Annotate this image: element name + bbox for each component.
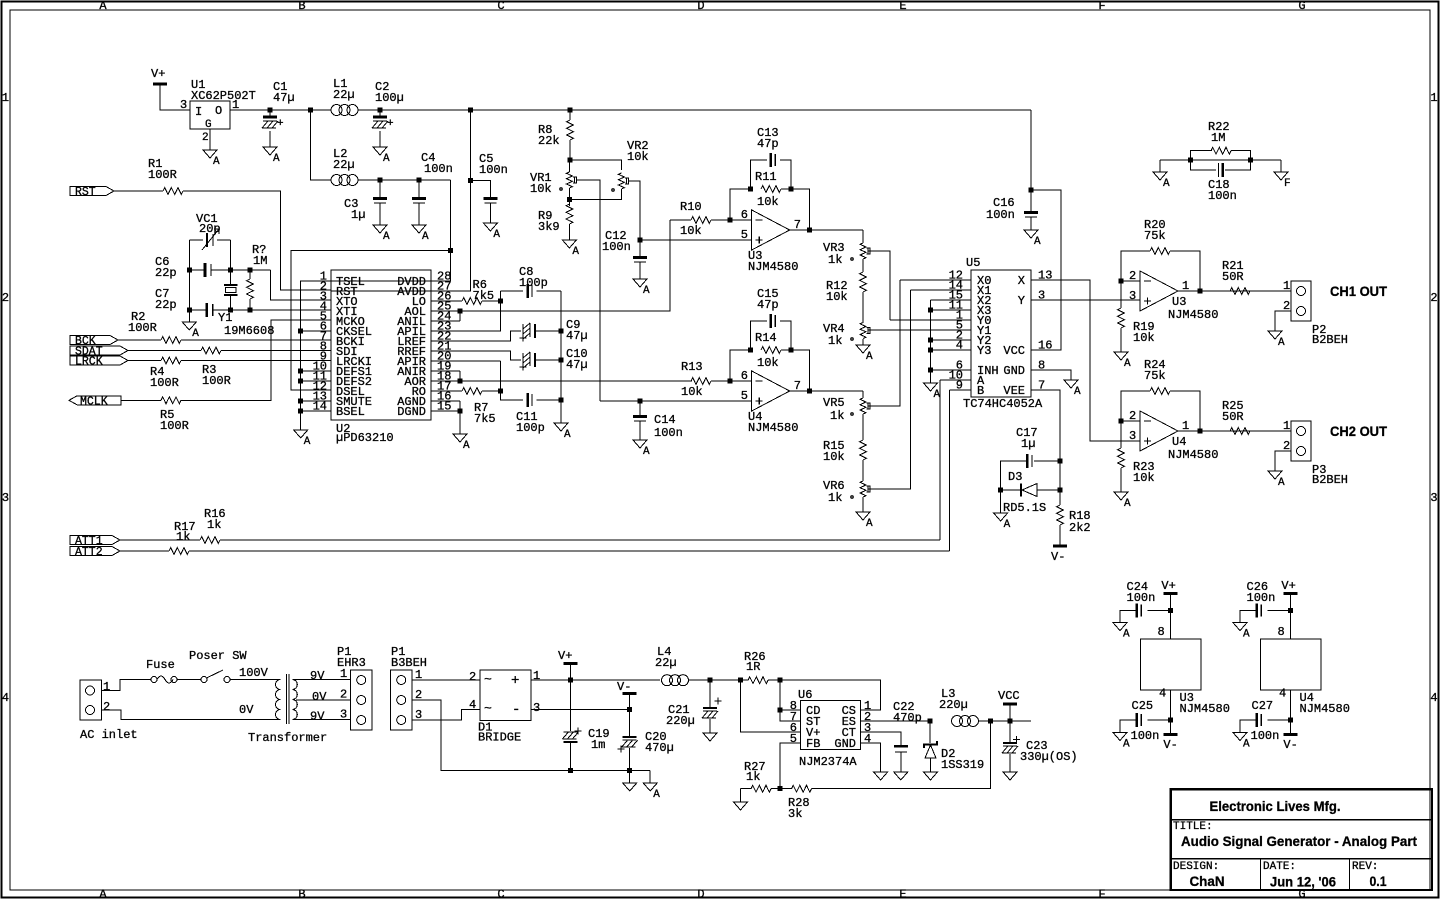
svg-text:6: 6 [741,208,748,222]
svg-text:AC inlet: AC inlet [80,728,138,742]
svg-text:F: F [1284,178,1291,190]
svg-text:22p: 22p [155,266,177,280]
svg-text:XC62P502T: XC62P502T [191,89,256,103]
svg-text:10k: 10k [823,450,845,464]
svg-text:C: C [497,0,504,13]
svg-text:470µ: 470µ [645,741,674,755]
svg-text:3k9: 3k9 [538,220,560,234]
svg-text:22k: 22k [538,134,560,148]
svg-text:10k: 10k [680,224,702,238]
svg-text:100V: 100V [239,666,269,680]
svg-text:DATE:: DATE: [1263,861,1296,873]
svg-text:100n: 100n [424,162,453,176]
svg-text:NJM4580: NJM4580 [1168,308,1218,322]
svg-text:100n: 100n [986,208,1015,222]
svg-text:10k: 10k [1133,331,1155,345]
svg-text:100R: 100R [128,321,157,335]
svg-text:22µ: 22µ [655,656,677,670]
svg-text:4: 4 [1159,687,1166,701]
svg-text:2: 2 [1430,291,1437,305]
svg-text:22p: 22p [155,298,177,312]
svg-text:4: 4 [864,732,871,746]
svg-text:470p: 470p [893,711,922,725]
svg-text:0V: 0V [312,690,327,704]
svg-text:10k: 10k [627,150,649,164]
svg-text:4: 4 [2,691,9,705]
svg-text:6: 6 [741,369,748,383]
svg-text:50R: 50R [1222,270,1244,284]
svg-text:0V: 0V [239,703,254,717]
svg-text:1: 1 [1283,279,1290,293]
svg-text:A: A [1243,739,1250,751]
svg-text:µPD63210: µPD63210 [336,431,394,445]
svg-text:CH2 OUT: CH2 OUT [1330,423,1387,439]
svg-text:10k: 10k [826,290,848,304]
svg-text:VEE: VEE [1003,384,1025,398]
svg-text:C14: C14 [654,413,676,427]
svg-text:1µ: 1µ [351,208,365,222]
svg-text:R14: R14 [755,331,777,345]
svg-text:+: + [511,673,519,689]
svg-text:1k: 1k [746,770,760,784]
svg-text:1M: 1M [1211,131,1225,145]
svg-text:A: A [1124,498,1131,510]
svg-text:A: A [1124,358,1131,370]
svg-text:4: 4 [469,698,476,712]
svg-text:VCC: VCC [998,689,1020,703]
svg-text:RD5.1S: RD5.1S [1003,501,1046,515]
svg-text:V+: V+ [1161,579,1175,593]
svg-text:D3: D3 [1008,470,1022,484]
svg-text:1R: 1R [746,660,760,674]
svg-text:3: 3 [180,98,187,112]
svg-text:B: B [298,888,305,900]
svg-text:R10: R10 [680,200,702,214]
svg-text:1M: 1M [253,254,267,268]
svg-text:1k: 1k [830,409,844,423]
svg-text:7k5: 7k5 [474,412,496,426]
svg-text:GND: GND [1003,364,1025,378]
svg-text:100n: 100n [479,163,508,177]
svg-text:47µ: 47µ [566,358,588,372]
svg-text:47p: 47p [757,298,779,312]
svg-text:10k: 10k [681,385,703,399]
svg-text:1k: 1k [207,518,221,532]
svg-text:V+: V+ [1281,579,1295,593]
svg-text:Audio Signal Generator - Analo: Audio Signal Generator - Analog Part [1181,833,1417,849]
svg-text:100µ: 100µ [375,91,404,105]
svg-text:100n: 100n [1208,189,1237,203]
svg-text:20p: 20p [199,222,221,236]
svg-text:A: A [1074,386,1081,398]
svg-text:B: B [977,384,984,398]
svg-text:~: ~ [484,701,492,716]
svg-text:0.1: 0.1 [1370,873,1387,889]
svg-text:A: A [493,229,500,241]
svg-text:A: A [213,156,220,168]
svg-text:2: 2 [2,291,9,305]
svg-text:100R: 100R [202,374,231,388]
svg-text:B2BEH: B2BEH [1312,333,1348,347]
svg-text:47p: 47p [757,137,779,151]
svg-text:A: A [304,436,311,448]
svg-text:A: A [383,231,390,243]
svg-text:BSEL: BSEL [336,405,365,419]
svg-text:RST: RST [75,186,96,199]
svg-text:10k: 10k [1133,471,1155,485]
svg-text:LRCK: LRCK [75,356,103,369]
svg-text:A: A [99,888,107,900]
svg-text:A: A [1163,178,1170,190]
svg-text:100n: 100n [1131,729,1160,743]
svg-text:V+: V+ [558,649,572,663]
svg-text:100n: 100n [602,240,631,254]
svg-text:REV:: REV: [1352,861,1378,873]
svg-text:A: A [1278,337,1285,349]
svg-text:1k: 1k [828,334,842,348]
svg-text:100p: 100p [516,421,545,435]
svg-text:1SS319: 1SS319 [941,758,984,772]
svg-text:G: G [205,119,212,131]
svg-text:-: - [512,702,520,718]
svg-text:Fuse: Fuse [146,658,175,672]
svg-text:75k: 75k [1144,369,1166,383]
svg-text:5: 5 [741,228,748,242]
svg-text:O: O [215,104,222,118]
svg-text:U6: U6 [798,688,812,702]
svg-text:V-: V- [617,680,631,694]
svg-text:100R: 100R [150,376,179,390]
svg-text:1k: 1k [828,253,842,267]
svg-text:V-: V- [1283,738,1297,752]
svg-text:FB: FB [806,737,820,751]
svg-text:X: X [1018,274,1025,288]
svg-text:10k: 10k [530,182,552,196]
svg-text:NJM4580: NJM4580 [1180,702,1230,716]
svg-text:U4: U4 [1172,435,1186,449]
svg-text:A: A [934,389,941,401]
svg-text:Y1: Y1 [218,311,232,325]
svg-text:V+: V+ [151,67,165,81]
svg-text:8: 8 [1278,625,1285,639]
svg-text:V-: V- [1051,550,1065,564]
svg-text:C: C [497,888,504,900]
svg-text:Electronic Lives Mfg.: Electronic Lives Mfg. [1210,798,1341,814]
svg-text:VR5: VR5 [823,396,845,410]
svg-text:9V: 9V [310,710,325,724]
svg-text:NJM4580: NJM4580 [748,260,798,274]
svg-text:A: A [1243,629,1250,641]
svg-text:E: E [899,888,906,900]
svg-text:2: 2 [469,670,476,684]
svg-text:50R: 50R [1222,410,1244,424]
svg-text:100p: 100p [519,276,548,290]
svg-text:220µ: 220µ [666,714,695,728]
svg-text:3k: 3k [788,807,802,821]
svg-text:+: + [387,118,394,130]
svg-text:I: I [195,105,202,119]
svg-text:A: A [1123,739,1130,751]
svg-text:NJM2374A: NJM2374A [799,755,857,769]
svg-text:Transformer: Transformer [248,731,327,745]
svg-text:CH1 OUT: CH1 OUT [1330,283,1387,299]
svg-text:3: 3 [1129,289,1136,303]
svg-text:+: + [277,118,284,130]
svg-text:1µ: 1µ [1021,437,1035,451]
svg-text:NJM4580: NJM4580 [748,421,798,435]
svg-text:3: 3 [533,701,540,715]
svg-text:2: 2 [103,700,110,714]
svg-text:BRIDGE: BRIDGE [478,731,521,745]
svg-text:TITLE:: TITLE: [1173,821,1213,833]
svg-text:3: 3 [2,491,9,505]
svg-text:U5: U5 [966,256,980,270]
svg-text:A: A [463,440,470,452]
svg-text:2: 2 [340,688,347,702]
svg-text:V-: V- [1163,738,1177,752]
svg-text:F: F [1098,888,1105,900]
svg-text:VCC: VCC [1003,344,1025,358]
svg-text:1: 1 [103,680,110,694]
svg-text:F: F [1098,0,1105,13]
svg-text:2: 2 [202,132,209,144]
svg-text:47µ: 47µ [273,91,295,105]
svg-text:22µ: 22µ [333,88,355,102]
svg-text:A: A [1123,629,1130,641]
svg-text:TC74HC4052A: TC74HC4052A [963,397,1043,411]
svg-text:A: A [192,328,199,340]
svg-text:22µ: 22µ [333,158,355,172]
svg-text:100R: 100R [160,419,189,433]
svg-text:10k: 10k [757,195,779,209]
svg-text:100n: 100n [1247,591,1276,605]
svg-text:100n: 100n [654,426,683,440]
svg-text:3: 3 [340,708,347,722]
svg-text:A: A [1004,519,1011,531]
svg-text:1: 1 [1283,419,1290,433]
svg-text:1k: 1k [176,530,190,544]
svg-text:1k: 1k [828,491,842,505]
svg-text:NJM4580: NJM4580 [1168,448,1218,462]
svg-text:5: 5 [790,732,797,746]
svg-text:A: A [866,351,873,363]
svg-text:Poser SW: Poser SW [189,649,247,663]
svg-text:3: 3 [1430,491,1437,505]
svg-text:75k: 75k [1144,229,1166,243]
svg-text:100n: 100n [1127,591,1156,605]
svg-text:E: E [899,0,906,13]
svg-text:A: A [99,0,107,13]
svg-text:A: A [653,789,660,801]
svg-text:7k5: 7k5 [473,289,495,303]
svg-text:A: A [1034,236,1041,248]
svg-text:8: 8 [1158,625,1165,639]
svg-text:1m: 1m [591,738,605,752]
svg-text:EHR3: EHR3 [337,656,366,670]
svg-text:Y3: Y3 [977,344,991,358]
svg-text:G: G [1298,0,1305,13]
svg-text:C25: C25 [1132,699,1154,713]
svg-text:D: D [697,0,704,13]
svg-text:A: A [572,246,579,258]
svg-text:A: A [383,153,390,165]
svg-text:330µ(OS): 330µ(OS) [1020,750,1078,764]
svg-text:4: 4 [1279,687,1286,701]
svg-text:ChaN: ChaN [1190,873,1225,889]
svg-text:R13: R13 [681,360,703,374]
svg-text:1: 1 [533,669,540,683]
svg-text:DGND: DGND [397,405,426,419]
svg-text:47µ: 47µ [566,329,588,343]
svg-text:MCLK: MCLK [80,395,108,408]
svg-text:C27: C27 [1252,699,1274,713]
svg-text:A: A [422,231,429,243]
svg-text:10k: 10k [757,356,779,370]
svg-text:DESIGN:: DESIGN: [1173,861,1219,873]
svg-text:9V: 9V [310,669,325,683]
svg-text:GND: GND [834,737,856,751]
svg-text:1: 1 [2,91,9,105]
svg-text:Jun 12, '06: Jun 12, '06 [1270,874,1336,890]
svg-text:3: 3 [1129,429,1136,443]
svg-text:~: ~ [484,672,492,687]
svg-text:A: A [643,446,650,458]
svg-text:A: A [866,518,873,530]
svg-text:A: A [1278,477,1285,489]
svg-text:A: A [564,429,571,441]
svg-text:100R: 100R [148,168,177,182]
svg-text:A: A [273,153,280,165]
svg-text:R11: R11 [755,170,777,184]
svg-text:NJM4580: NJM4580 [1300,702,1350,716]
svg-text:B2BEH: B2BEH [1312,473,1348,487]
svg-text:100n: 100n [1251,729,1280,743]
svg-text:U3: U3 [1172,295,1186,309]
svg-text:4: 4 [1430,691,1437,705]
svg-text:B: B [298,0,305,13]
svg-text:19M6608: 19M6608 [224,324,274,338]
svg-text:2k2: 2k2 [1069,521,1091,535]
svg-text:220µ: 220µ [939,698,968,712]
svg-text:Y: Y [1018,294,1025,308]
svg-text:A: A [643,285,650,297]
svg-text:D: D [697,888,704,900]
svg-text:1: 1 [1430,91,1437,105]
svg-text:ATT2: ATT2 [75,546,103,559]
